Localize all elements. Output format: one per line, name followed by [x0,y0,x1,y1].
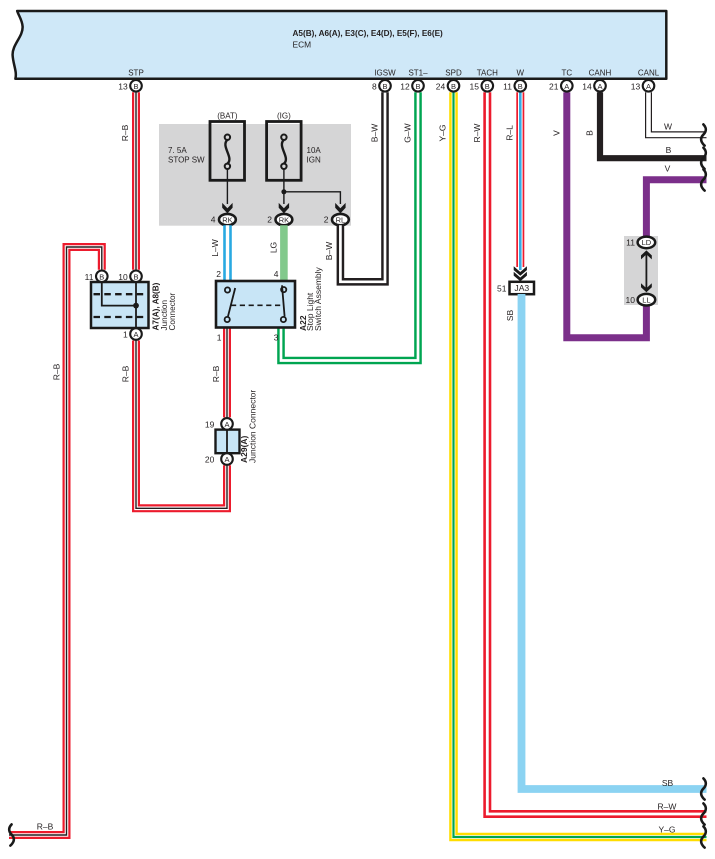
wire R-B left rail from A7 pin 11 to left edge break [9,247,102,835]
wire B-W from ECM IGSW to 2 RL [340,92,385,281]
svg-text:(IG): (IG) [277,112,291,121]
junction connector A29(A) [205,390,258,465]
connector 2 RK [267,214,292,225]
svg-text:LG: LG [268,242,278,253]
break symbol R-B (bottom left) [9,824,14,845]
wire R-B from A22 pin 1 to A29 pin 19 [223,328,231,418]
svg-text:Connector: Connector [168,292,177,330]
ECM pin IGSW 8 B [372,69,396,92]
svg-text:A: A [224,420,229,429]
wire R-B from A7 pin 1 down, right, up to A29 pin 20 [136,341,227,509]
svg-text:1: 1 [123,330,128,340]
wire W from ECM CANL to right edge break [649,92,707,135]
junction connector JA3 [497,282,534,294]
ECM pin TACH 15 B [470,69,499,92]
svg-text:R–L: R–L [505,125,515,141]
svg-text:V: V [665,164,671,174]
svg-text:13: 13 [631,81,641,91]
svg-text:B: B [133,272,138,281]
connector LD / LL with mating arrows [624,236,658,306]
break symbol R-W (right) [701,803,706,824]
break symbol SB (right) [701,778,706,799]
wire V from right edge break to LD [646,180,706,237]
svg-text:7. 5A: 7. 5A [168,146,187,155]
svg-text:B: B [518,82,523,91]
svg-text:8: 8 [372,81,377,91]
ECM pin ST1- 12 B [400,69,428,92]
svg-text:RL: RL [336,215,346,224]
svg-text:R–B: R–B [37,822,54,832]
svg-text:STOP SW: STOP SW [168,156,205,165]
svg-text:L–W: L–W [210,239,220,256]
svg-text:B–W: B–W [324,242,334,260]
svg-text:10: 10 [626,295,636,305]
svg-text:R–W: R–W [472,124,482,143]
svg-text:CANL: CANL [638,69,660,78]
svg-text:B: B [585,130,595,136]
svg-text:B–W: B–W [370,124,380,142]
svg-text:TACH: TACH [477,69,498,78]
svg-text:B: B [133,82,138,91]
fuse 7.5A STOP SW (BAT) [168,112,245,181]
svg-text:24: 24 [436,81,446,91]
break symbol B (right) [701,148,706,169]
wire R-W from ECM TACH to right edge break [487,92,706,814]
break symbol W (right) [701,124,706,145]
svg-text:B: B [485,82,490,91]
svg-text:CANH: CANH [589,69,612,78]
svg-text:2: 2 [216,269,221,279]
svg-text:IGN: IGN [307,156,321,165]
wire B from ECM CANH to right edge break [600,92,707,158]
arrow into 2 RK [279,203,289,214]
svg-text:G–W: G–W [403,123,413,142]
ECM pin TC 21 A [549,69,573,92]
wire SB from JA3 to right edge break [522,294,707,789]
ECM pin W 11 B [503,69,526,92]
svg-text:R–B: R–B [211,365,221,382]
svg-text:SB: SB [662,778,674,788]
wire R-B from ECM STP to A7 pin 10 [132,92,140,269]
svg-text:B: B [451,82,456,91]
gray relay/fuse panel [159,124,351,226]
svg-text:IGSW: IGSW [374,69,396,78]
svg-text:21: 21 [549,81,559,91]
svg-text:R–B: R–B [120,365,130,382]
svg-text:A: A [224,455,229,464]
break symbol V (right) [701,169,706,190]
svg-text:11: 11 [85,272,94,282]
svg-text:R–B: R–B [52,363,62,380]
wire LG from 2 RK to A22 pin 4 [280,225,288,281]
connector 4 RK [211,214,236,225]
svg-text:51: 51 [497,283,507,293]
svg-text:W: W [517,69,525,78]
svg-text:Y–G: Y–G [438,124,448,141]
svg-text:B: B [415,82,420,91]
svg-text:13: 13 [118,81,128,91]
wire G-W from ECM ST1- to A22 pin 3 [281,92,418,360]
svg-text:SPD: SPD [445,69,462,78]
wire fuse BAT to connector RK [226,169,228,204]
svg-text:ECM: ECM [293,40,312,50]
svg-text:15: 15 [470,81,480,91]
svg-text:1: 1 [217,333,222,343]
svg-text:R–W: R–W [658,802,677,812]
svg-text:RK: RK [222,215,232,224]
svg-text:ST1–: ST1– [408,69,428,78]
double chevron into JA3 [514,266,527,276]
svg-text:A5(B), A6(A), E3(C), E4(D), E5: A5(B), A6(A), E3(C), E4(D), E5(F), E6(E) [293,29,444,38]
svg-text:11: 11 [503,81,512,91]
wire R-L from ECM W to JA3 [516,92,524,270]
svg-text:B: B [99,272,104,281]
arrow into 2 RL [335,203,345,214]
svg-text:W: W [664,122,672,132]
svg-text:RK: RK [279,215,289,224]
ECM pin SPD 24 B [436,69,462,92]
svg-text:LL: LL [642,295,650,304]
break symbol Y-G (right) [701,826,706,847]
wire V from ECM TC to LL [567,92,647,337]
svg-text:TC: TC [561,69,572,78]
svg-text:SB: SB [505,310,515,322]
svg-text:2: 2 [324,215,329,225]
svg-text:LD: LD [642,238,652,247]
svg-text:V: V [551,130,561,136]
svg-text:Junction Connector: Junction Connector [248,390,258,463]
ECM pin STP 13 B [118,69,144,92]
ECM pin CANH 14 A [582,69,611,92]
fuse 10A IGN (IG) [267,112,322,181]
svg-text:B: B [666,145,672,155]
svg-text:A: A [646,82,651,91]
svg-text:JA3: JA3 [514,283,529,293]
svg-text:A: A [564,82,569,91]
svg-text:4: 4 [211,215,216,225]
svg-text:B: B [382,82,387,91]
wire L-W from 4 RK to A22 pin 2 [223,225,232,281]
svg-text:19: 19 [205,419,215,429]
svg-text:2: 2 [267,215,272,225]
svg-text:A: A [597,82,602,91]
svg-text:14: 14 [582,81,592,91]
svg-text:Switch Assembly: Switch Assembly [313,266,323,331]
connector 2 RL [324,214,349,225]
ECM A5(B), A6(A), E3(C), E4(D), E5(F), E6(E) [13,11,667,79]
junction connector A7(A) A8(B) [85,271,177,340]
stop light switch assembly A22 [216,266,323,342]
arrow into 4 RK [222,203,232,214]
svg-text:10: 10 [118,272,128,282]
svg-text:11: 11 [626,238,635,248]
svg-text:Y–G: Y–G [658,825,675,835]
svg-text:STP: STP [128,69,144,78]
junction dot [281,189,286,194]
svg-text:3: 3 [274,333,279,343]
svg-text:A: A [133,330,138,339]
wire fuse IG to connector RK and branch to RL [284,169,341,204]
svg-text:R–B: R–B [120,124,130,141]
svg-text:12: 12 [400,81,410,91]
svg-text:10A: 10A [307,146,322,155]
svg-text:(BAT): (BAT) [217,112,238,121]
svg-text:20: 20 [205,455,215,465]
ECM pin CANL 13 A [631,69,660,92]
wire Y-G from ECM SPD to right edge break [454,92,707,837]
svg-text:4: 4 [274,269,279,279]
